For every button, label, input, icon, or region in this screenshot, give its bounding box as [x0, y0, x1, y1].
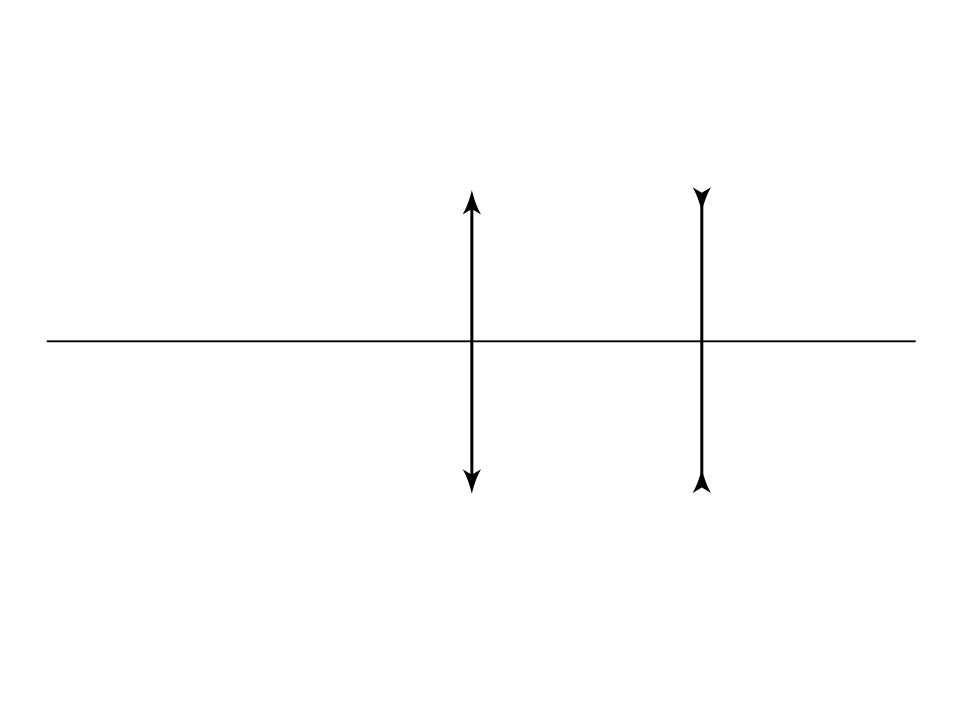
converging lens L1 — [463, 190, 481, 494]
lens L1 top arrowhead — [463, 190, 481, 215]
lens L2 bottom arrowhead (inward, pointing up) — [693, 469, 711, 494]
lens L2 top arrowhead (inward, pointing down) — [693, 187, 711, 212]
lens L2 shaft — [700, 193, 703, 487]
lens L1 bottom arrowhead — [463, 469, 481, 494]
diverging lens L2 — [693, 187, 711, 493]
optical axis — [47, 340, 916, 342]
lens L1 shaft — [470, 200, 473, 484]
